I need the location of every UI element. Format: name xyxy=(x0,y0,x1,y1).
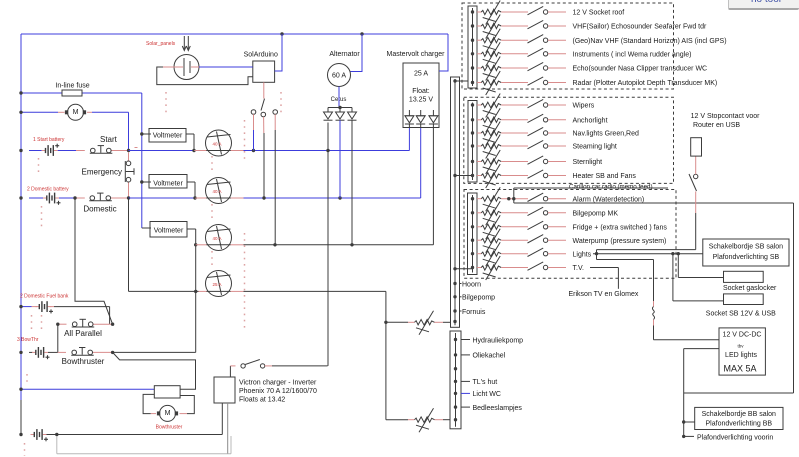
node: alarm branch b xyxy=(512,197,515,200)
node: group bus Echo(sounder Nasa Cl xyxy=(471,66,474,69)
svg-text:Oliekachel: Oliekachel xyxy=(473,353,506,360)
socket X3 Socket SB 12V & USB xyxy=(706,294,776,317)
fuse: (Geo)Nav VHF (Standard H xyxy=(477,29,528,53)
svg-text:T.V.: T.V. xyxy=(573,265,584,272)
svg-text:Start: Start xyxy=(100,135,118,144)
node: V1 tap xyxy=(140,132,143,135)
node: bowthruster battery rail tap xyxy=(19,351,22,354)
wire: row1 blue to Mastervolt diode xyxy=(244,150,410,152)
svg-text:Socket gaslocker: Socket gaslocker xyxy=(723,285,777,292)
node: voltmeter V1 join xyxy=(192,149,195,152)
dashed group enclosure xyxy=(462,3,674,89)
node: row3 solar tap xyxy=(273,243,276,246)
node: voorin tap xyxy=(682,435,685,438)
charger U3 Mastervolt charger 25A xyxy=(387,51,446,128)
wire: voltmeter feed vertical (blue) xyxy=(141,93,143,228)
ammeter A2 40A xyxy=(206,178,232,204)
wire: solar panel to controller (blue) xyxy=(199,66,253,68)
node: start battery rail tap xyxy=(19,149,22,152)
switch SW4 All Parallel xyxy=(58,319,113,338)
switch: VHF(Sailor) Echosounder xyxy=(528,20,548,28)
motor M2 Bowthruster xyxy=(156,405,183,430)
node: group bus Lights xyxy=(471,252,474,255)
node: all parallel left xyxy=(56,323,59,326)
svg-text:Alternator: Alternator xyxy=(329,51,360,58)
svg-text:Anchorlight: Anchorlight xyxy=(573,117,608,124)
load label: Anchorlight xyxy=(548,117,608,124)
load label: Waterpump (pressure syst xyxy=(548,238,666,245)
node: bottom battery rail tap xyxy=(19,433,22,436)
resistor R1 (bowthruster series) xyxy=(154,386,180,398)
wire: row2 red through ammeter A2 xyxy=(195,197,207,199)
svg-text:Plafondverlichting SB: Plafondverlichting SB xyxy=(713,254,780,261)
svg-text:In-line fuse: In-line fuse xyxy=(55,83,89,90)
svg-text:Lights: Lights xyxy=(573,251,592,258)
node: bowthruster switch out xyxy=(111,351,114,354)
svg-text:Bowthruster: Bowthruster xyxy=(156,425,183,431)
node: V2 tap xyxy=(140,180,143,183)
node: row4 crossing junction xyxy=(194,290,197,293)
node: busbar BB1 G2 feed xyxy=(453,174,456,177)
wire: row4 feeder from domestic junction xyxy=(128,198,130,291)
socket X2 gaslocker xyxy=(723,271,777,292)
load label: T.V. xyxy=(548,265,584,272)
node: group bus Anchorlight xyxy=(471,118,474,121)
converter U4 12V DC-DC LED xyxy=(719,328,765,375)
fuse: Alarm (Waterdetection) xyxy=(477,187,528,211)
busbar BB1 (main distribution) xyxy=(451,77,460,327)
switch: Heater SB and Fans xyxy=(528,170,548,178)
svg-text:Plafondverlichting voorin: Plafondverlichting voorin xyxy=(697,434,773,441)
diode D5 (Mastervolt out 2) xyxy=(416,110,425,124)
svg-text:12 V DC-DC: 12 V DC-DC xyxy=(723,332,762,339)
svg-text:40 A: 40 A xyxy=(213,189,222,194)
switch: Anchorlight xyxy=(528,114,548,122)
fuse: Bilgepomp MK xyxy=(477,201,528,225)
busbar group xyxy=(468,6,477,88)
wire: main positive top rail (blue) xyxy=(21,34,448,400)
node: group bus 12 V Socket roof xyxy=(471,10,474,13)
panel: Schakelbordje SB salon / Plafondverlichting SB xyxy=(703,239,789,266)
node: BB panel tap xyxy=(682,420,685,423)
fuse: 12 V Socket roof xyxy=(477,1,528,25)
wire: row1 red through ammeter A1 xyxy=(194,150,207,152)
wire: Mastervolt to top rail (blue) xyxy=(439,34,448,71)
node: lights socket tap b xyxy=(677,252,680,255)
wire: solar panel return loop xyxy=(157,67,253,85)
node: group bus Alarm (Waterdetectio xyxy=(471,197,474,200)
load: Oliekachel xyxy=(461,353,506,360)
wire: row1 start bus (blue) xyxy=(129,150,195,152)
node: mid fuse branch xyxy=(384,321,387,324)
load label: Fridge + (extra switched xyxy=(548,224,667,231)
wire: victron switch to start trunk xyxy=(272,365,328,367)
battery B4 (3 BowThr) xyxy=(17,337,58,359)
switch SW6 (Victron isolator) xyxy=(230,360,272,378)
load label: Echo(sounder Nasa Clippe xyxy=(548,66,707,73)
wire: solar selector to row1 xyxy=(253,114,255,150)
switch: Steaming light xyxy=(528,140,548,148)
switch: T.V. xyxy=(528,262,548,270)
wire: alternator D2 output (blue) xyxy=(339,120,341,198)
wire: bottom bus to Victron xyxy=(57,434,223,436)
svg-text:Voltmeter: Voltmeter xyxy=(154,228,184,235)
voltmeter V1 xyxy=(142,129,194,151)
svg-text:Bowthruster: Bowthruster xyxy=(62,357,105,366)
switch SW8 stopcontact xyxy=(689,156,698,191)
load label: Wipers xyxy=(548,103,595,110)
svg-text:25 A: 25 A xyxy=(213,282,222,287)
svg-text:VHF(Sailor) Echosounder Seafar: VHF(Sailor) Echosounder Seafarer Fwd tdr xyxy=(573,24,707,31)
svg-text:Carillon car radio (memo feed): Carillon car radio (memo feed) xyxy=(569,183,653,190)
svg-text:(Geo)Nav VHF (Standard Horizon: (Geo)Nav VHF (Standard Horizon) AIS (inc… xyxy=(573,38,727,45)
voltmeter V3 xyxy=(142,222,196,238)
node: all parallel right xyxy=(111,323,114,326)
node: motor row tap xyxy=(19,111,22,114)
load label: Steaming light xyxy=(548,144,617,151)
fuse: Waterpump (pressure syst xyxy=(477,229,528,253)
switch SW5 Bowthruster xyxy=(58,348,113,367)
battery B1 (1 Start battery) xyxy=(29,137,76,156)
svg-text:Mastervolt charger: Mastervolt charger xyxy=(387,51,446,58)
node: busbar BB2 Oliekachel xyxy=(454,353,457,356)
busbar BB2 (lower distribution) xyxy=(450,331,461,429)
node: top rail junction to SolArduino xyxy=(280,32,283,35)
svg-text:Bilgepomp MK: Bilgepomp MK xyxy=(573,210,619,217)
node: group bus Instruments ( incl W xyxy=(471,52,474,55)
switch SW1 Start xyxy=(76,135,129,153)
load label: Lights xyxy=(548,251,592,258)
wire: T.V. to Erikson TV xyxy=(590,268,618,289)
node: busbar BB2 Hydrauliekpomp xyxy=(454,338,457,341)
UI tooltip remnant: No tool option xyxy=(728,0,799,10)
wire: row4 red through ammeter A4 xyxy=(199,290,207,292)
svg-text:Alarm (Waterdetection): Alarm (Waterdetection) xyxy=(573,196,645,203)
node: group bus Sternlight xyxy=(471,160,474,163)
fuse: Radar (Plotter Autopilot xyxy=(477,71,528,95)
node: row2 solar tap xyxy=(262,196,265,199)
load: Hydrauliekpomp xyxy=(461,337,523,344)
wire: bowthruster blue feed from left rail xyxy=(21,388,154,390)
node: busbar BB2 junction xyxy=(454,367,457,370)
node: busbar BB1 fuse in xyxy=(453,320,456,323)
svg-text:Hoorn: Hoorn xyxy=(462,281,481,288)
switch SW7 solar output selector xyxy=(251,82,277,116)
load: Bedleeslampjes xyxy=(461,405,522,412)
switch: Sternlight xyxy=(528,156,548,164)
svg-text:25 A: 25 A xyxy=(414,71,428,78)
node: row3 alternator tap xyxy=(350,243,353,246)
switch: Alarm (Waterdetection) xyxy=(528,193,548,201)
svg-text:60 A: 60 A xyxy=(332,73,346,80)
battery B2 (2 Domestic battery) xyxy=(27,187,76,205)
svg-text:12 V Socket roof: 12 V Socket roof xyxy=(573,10,625,17)
diode D6 (Mastervolt out 3) xyxy=(429,110,438,124)
wire: alternator diode rail xyxy=(328,87,352,113)
node: start bus junction xyxy=(127,149,130,152)
load label: Nav.lights Green,Red xyxy=(548,131,639,138)
load label: Heater SB and Fans xyxy=(548,173,636,180)
node: group bus Waterpump (pressure xyxy=(471,239,474,242)
svg-text:Erikson TV en Glomex: Erikson TV en Glomex xyxy=(569,291,639,298)
svg-text:Plafondverlichting BB: Plafondverlichting BB xyxy=(706,421,773,428)
wire: Mastervolt D4 to row1 (blue) xyxy=(408,124,410,151)
node: group bus Wipers xyxy=(471,103,474,106)
switch: (Geo)Nav VHF (Standard H xyxy=(528,35,548,43)
load label: (Geo)Nav VHF (Standard H xyxy=(548,38,727,45)
wire: alternator D3 output xyxy=(351,120,353,245)
svg-text:Victron charger - Inverter: Victron charger - Inverter xyxy=(239,380,317,387)
wire: solar selector to row2 xyxy=(263,117,265,198)
busbar group xyxy=(468,193,478,275)
svg-text:Voltmeter: Voltmeter xyxy=(153,181,183,188)
node: group bus Heater SB and Fans xyxy=(471,174,474,177)
svg-text:Domestic: Domestic xyxy=(83,205,116,214)
svg-text:Router en USB: Router en USB xyxy=(693,122,740,129)
wire: loop up branch to DC-DC xyxy=(684,349,719,393)
node: group bus VHF(Sailor) Echosoun xyxy=(471,24,474,27)
fuse F1 In-line fuse xyxy=(21,83,142,97)
svg-text:Steaming light: Steaming light xyxy=(573,144,617,151)
node: busbar BB1 Hoorn xyxy=(453,282,456,285)
wire: motor to start-switch junction (blue) xyxy=(128,112,130,150)
load label: 12 V Socket roof xyxy=(548,10,624,17)
node: domestic switch left branch xyxy=(73,196,76,199)
svg-text:Emergency: Emergency xyxy=(82,168,122,177)
wire: bowthruster motor feed xyxy=(113,352,196,389)
wire: alternator/victron trunk vertical xyxy=(327,123,329,366)
dashed group enclosure xyxy=(464,97,674,183)
wire: row3 black to Mastervolt diode 3 xyxy=(244,244,434,246)
switch: Nav.lights Green,Red xyxy=(528,127,548,135)
fuse: Anchorlight xyxy=(477,108,528,132)
fuse F3 (lower busbar feed) xyxy=(386,408,450,432)
load: Licht WC xyxy=(461,391,501,398)
switch SW2 Emergency xyxy=(82,153,134,199)
svg-text:M: M xyxy=(165,410,171,417)
fuse: Echo(sounder Nasa Clippe xyxy=(477,57,528,81)
node: group bus Nav.lights Green,Red xyxy=(471,131,474,134)
node: group bus Radar (Plotter Autop xyxy=(471,81,474,84)
wire: BB1 to group2 busbar xyxy=(455,175,473,177)
node: alternator diode rail center xyxy=(338,106,341,109)
node: row1 solar tap xyxy=(252,149,255,152)
switch: Instruments ( incl Wema xyxy=(528,48,548,56)
wire: Mastervolt D6 to row3 xyxy=(432,124,434,245)
wire: V3 / row3 vertical trunk xyxy=(195,229,197,352)
fuse: Lights xyxy=(477,242,528,266)
svg-text:Solar_panels: Solar_panels xyxy=(146,41,176,47)
svg-text:Hydrauliekpomp: Hydrauliekpomp xyxy=(473,337,524,344)
node: group bus Fridge + (extra swit xyxy=(471,225,474,228)
wire: Lights net to SB panel xyxy=(593,253,703,255)
node: group bus T.V. xyxy=(471,266,474,269)
diode D4 (Mastervolt out 1) xyxy=(405,110,414,124)
wire: lights to socket SB 12V xyxy=(673,254,724,301)
fuse: Sternlight xyxy=(477,150,528,174)
node: domestic bus junction xyxy=(127,196,130,199)
wire: BB1 to group1 busbar xyxy=(455,80,468,82)
dashed group enclosure xyxy=(464,190,676,279)
switch: Lights xyxy=(528,248,548,256)
panel: Schakelbordje BB salon / Plafondverlichting BB xyxy=(695,407,783,429)
voltmeter V2 xyxy=(142,175,195,199)
node: row3 junction xyxy=(194,243,197,246)
load: TL's hut xyxy=(461,379,497,386)
svg-text:tbv: tbv xyxy=(737,344,744,349)
wire: left rail lower black segment xyxy=(20,400,22,435)
fuse: Heater SB and Fans xyxy=(477,164,528,188)
node: in-line fuse rail tap xyxy=(19,91,22,94)
load label: Radar (Plotter Autopilot xyxy=(548,80,717,87)
switch: Fridge + (extra switched xyxy=(528,221,548,229)
diode D3 (alternator to bus 3) xyxy=(348,112,357,120)
wire: row2 blue to Mastervolt diode 2 xyxy=(244,197,421,199)
svg-text:Bilgepomp: Bilgepomp xyxy=(462,295,495,302)
ammeter A1 40A xyxy=(206,130,232,156)
diode D2 (alternator to domestic bus) xyxy=(336,112,345,120)
svg-text:Fornuis: Fornuis xyxy=(462,309,486,316)
node: busbar BB1 Fornuis xyxy=(453,309,456,312)
svg-text:Waterpump (pressure system): Waterpump (pressure system) xyxy=(573,238,667,245)
svg-text:TL's hut: TL's hut xyxy=(473,379,498,386)
fuse: Instruments ( incl Wema xyxy=(477,42,528,66)
fuse: VHF(Sailor) Echosounder xyxy=(477,15,528,39)
svg-text:Nav.lights Green,Red: Nav.lights Green,Red xyxy=(573,131,640,138)
svg-text:Sternlight: Sternlight xyxy=(573,159,603,166)
node: top rail junction to alternator xyxy=(360,32,363,35)
svg-text:Licht WC: Licht WC xyxy=(473,391,501,398)
wire: to Schakelbordje BB xyxy=(684,421,695,423)
node: lights socket tap a xyxy=(671,252,674,255)
wire: solar selector to row3 xyxy=(274,114,276,245)
wire: all-parallel to bowthruster switch xyxy=(57,324,59,352)
node: busbar BB1 G3 feed xyxy=(453,267,456,270)
svg-text:2 Domestic Fuel bank: 2 Domestic Fuel bank xyxy=(20,294,69,300)
wire: row4 black to fuse feeders xyxy=(244,290,386,292)
wire: Carillon car radio memory feed xyxy=(514,188,668,199)
diode D1 (alternator to start bus) xyxy=(324,112,333,120)
node: voltmeter V2 join xyxy=(193,196,196,199)
wire: alarm feed to BB lighting loop xyxy=(514,199,794,393)
svg-text:40 A: 40 A xyxy=(213,142,222,147)
wire: lights to stopcontact riser xyxy=(597,191,696,253)
node: busbar BB2 junction xyxy=(454,418,457,421)
wire: to Plafondverlichting voorin xyxy=(684,435,694,437)
socket X1 12V stopcontact router xyxy=(691,113,761,156)
load label: VHF(Sailor) Echosounder xyxy=(548,24,707,31)
fuse: Steaming light xyxy=(477,135,528,159)
svg-text:Echo(sounder Nasa Clipper tran: Echo(sounder Nasa Clipper transducer WC xyxy=(573,66,708,73)
node: alarm branch a xyxy=(507,197,510,200)
svg-text:Voltmeter: Voltmeter xyxy=(153,133,183,140)
svg-text:2 Domestic battery: 2 Domestic battery xyxy=(27,187,69,193)
svg-text:All Parallel: All Parallel xyxy=(64,329,102,338)
svg-text:13.25 V: 13.25 V xyxy=(409,97,433,104)
svg-text:M: M xyxy=(73,109,79,116)
wire: ghost frame (grey) xyxy=(57,436,231,454)
fuse F2 (distribution busbar feed) xyxy=(386,311,451,335)
charger U1 Victron charger - Inverter xyxy=(214,377,317,454)
switch: Radar (Plotter Autopilot xyxy=(528,77,548,85)
load label: Sternlight xyxy=(548,159,602,166)
node: lights junction xyxy=(595,252,598,255)
svg-text:Phoenix 70 A 12/1600/70: Phoenix 70 A 12/1600/70 xyxy=(239,388,317,395)
svg-text:Heater SB and Fans: Heater SB and Fans xyxy=(573,173,637,180)
svg-text:3 BowThr: 3 BowThr xyxy=(17,337,39,343)
switch: Echo(sounder Nasa Clippe xyxy=(528,62,548,70)
load: Fornuis xyxy=(460,309,486,316)
switch SW3 Domestic xyxy=(76,193,129,213)
wire: Mastervolt D5 to row2 (blue) xyxy=(420,124,422,198)
svg-text:Schakelbordje SB salon: Schakelbordje SB salon xyxy=(709,243,783,250)
svg-text:Wipers: Wipers xyxy=(573,103,595,110)
svg-text:Schakelbordje BB salon: Schakelbordje BB salon xyxy=(702,411,776,418)
svg-text:MAX 5A: MAX 5A xyxy=(723,364,756,374)
wire: loop down branch to BB panel xyxy=(683,393,685,436)
wire: row2 domestic bus (blue) xyxy=(129,197,196,199)
node: fuel bank rail tap xyxy=(19,305,22,308)
load label: Alarm (Waterdetection) xyxy=(548,196,644,203)
busbar group xyxy=(468,101,477,183)
load: Hoorn xyxy=(460,281,482,288)
fuse: Wipers xyxy=(477,94,528,118)
ammeter A4 25A xyxy=(206,271,232,297)
wire: lights to DC-DC via flex xyxy=(597,254,720,340)
switch: Wipers xyxy=(528,99,548,107)
marks: red trim dashes xyxy=(25,92,282,456)
node: busbar BB2 Bedleeslampjes xyxy=(454,405,457,408)
wire: bowthruster motor loop left xyxy=(143,394,156,413)
wire: lights to gaslocker socket xyxy=(678,254,723,278)
svg-text:1 Start battery: 1 Start battery xyxy=(33,137,65,143)
battery B5 (bowthruster aft bank) xyxy=(31,429,57,441)
solar panel PV1 xyxy=(146,36,200,80)
switch: Bilgepomp MK xyxy=(528,207,548,215)
fuse: Nav.lights Green,Red xyxy=(477,122,528,146)
alternator G1 60A xyxy=(328,51,361,87)
fuse: Fridge + (extra switched xyxy=(477,215,528,239)
svg-text:LED lights: LED lights xyxy=(725,352,757,359)
node: busbar BB2 Licht WC xyxy=(454,392,457,395)
load: Bilgepomp xyxy=(460,295,496,302)
svg-text:12 V Stopcontact voor: 12 V Stopcontact voor xyxy=(691,113,761,120)
node: row1 alternator tap xyxy=(326,149,329,152)
node: busbar BB1 Bilgepomp xyxy=(453,295,456,298)
svg-text:Socket SB 12V & USB: Socket SB 12V & USB xyxy=(706,310,776,317)
node: domestic battery rail tap xyxy=(19,196,22,199)
svg-text:Fridge + (extra switched ) fan: Fridge + (extra switched ) fans xyxy=(573,224,668,231)
node: row2 alternator tap xyxy=(338,196,341,199)
fuse: T.V. xyxy=(477,256,528,280)
node: left rail bowthruster tap xyxy=(19,388,22,391)
svg-text:Floats at 13.42: Floats at 13.42 xyxy=(239,397,285,404)
svg-text:40 A: 40 A xyxy=(213,236,222,241)
node: busbar BB2 TL's hut xyxy=(454,380,457,383)
svg-text:Radar (Plotter Autopilot Depth: Radar (Plotter Autopilot Depth Transduce… xyxy=(573,80,718,87)
svg-text:Bedleeslampjes: Bedleeslampjes xyxy=(473,405,523,412)
node: busbar BB1 G1 feed xyxy=(453,79,456,82)
wire: row3 red through ammeter A3 xyxy=(196,244,207,246)
wire: bowthruster motor loop right xyxy=(180,396,195,414)
switch: Waterpump (pressure syst xyxy=(528,235,548,243)
node: group bus Steaming light xyxy=(471,144,474,147)
svg-text:Instruments ( incl Wema rudder: Instruments ( incl Wema rudder angle) xyxy=(573,51,692,58)
load label: Bilgepomp MK xyxy=(548,210,618,217)
ammeter A3 40A xyxy=(206,225,232,251)
wire: domestic branch down to all-parallel xyxy=(75,198,113,324)
svg-text:SolArduino: SolArduino xyxy=(244,52,278,59)
